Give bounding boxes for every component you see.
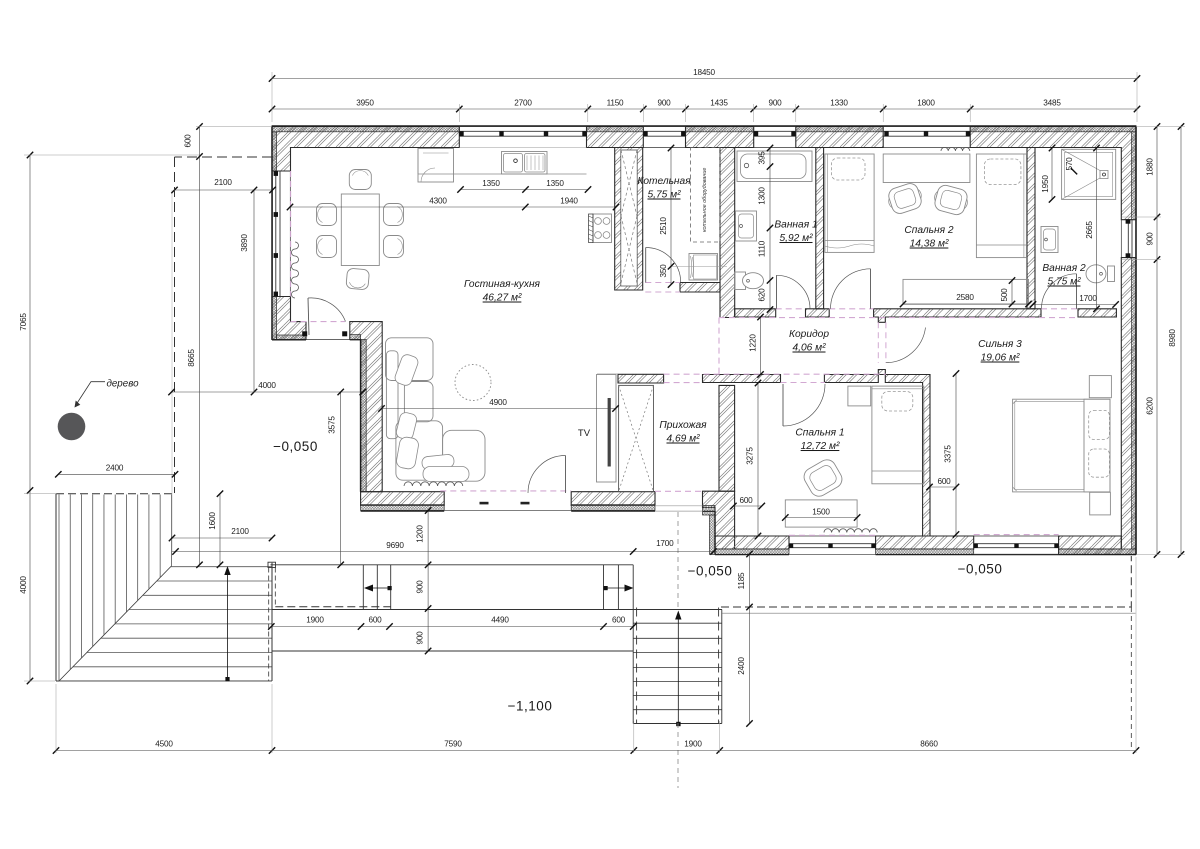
svg-text:Сильня 3: Сильня 3	[978, 339, 1022, 350]
svg-text:500: 500	[1000, 288, 1009, 302]
svg-text:Гостиная-кухня: Гостиная-кухня	[464, 279, 541, 290]
svg-text:−0,050: −0,050	[958, 562, 1003, 577]
svg-text:1500: 1500	[812, 508, 830, 517]
svg-text:18450: 18450	[693, 68, 715, 77]
svg-text:600: 600	[184, 134, 193, 148]
svg-text:1800: 1800	[917, 99, 935, 108]
svg-text:3375: 3375	[944, 445, 953, 463]
svg-text:900: 900	[657, 99, 671, 108]
svg-text:8665: 8665	[187, 349, 196, 367]
svg-text:Котельная: Котельная	[637, 176, 691, 187]
svg-text:2100: 2100	[231, 527, 249, 536]
svg-text:дерево: дерево	[106, 379, 139, 390]
svg-text:8660: 8660	[920, 740, 938, 749]
svg-text:Ванная 2: Ванная 2	[1042, 263, 1086, 274]
svg-text:570: 570	[1065, 157, 1074, 171]
svg-text:4490: 4490	[491, 616, 509, 625]
svg-text:2100: 2100	[214, 178, 232, 187]
svg-text:2665: 2665	[1085, 221, 1094, 239]
svg-text:1600: 1600	[208, 512, 217, 530]
svg-text:1940: 1940	[560, 197, 578, 206]
svg-text:1350: 1350	[482, 179, 500, 188]
svg-text:1185: 1185	[737, 572, 746, 589]
svg-text:5,92 м²: 5,92 м²	[779, 233, 813, 244]
svg-text:Коридор: Коридор	[789, 329, 829, 340]
svg-text:8980: 8980	[1168, 329, 1177, 347]
svg-text:2510: 2510	[659, 217, 668, 235]
svg-text:900: 900	[416, 631, 425, 645]
svg-text:395: 395	[758, 151, 767, 165]
svg-text:котельное оборудование: котельное оборудование	[702, 168, 708, 232]
svg-text:620: 620	[758, 288, 767, 302]
svg-text:14,38 м²: 14,38 м²	[910, 239, 949, 250]
svg-text:4500: 4500	[155, 740, 173, 749]
svg-text:350: 350	[659, 264, 668, 278]
svg-text:9690: 9690	[386, 541, 404, 550]
svg-text:4300: 4300	[429, 197, 447, 206]
svg-text:900: 900	[416, 580, 425, 594]
svg-text:5,75 м²: 5,75 м²	[1047, 277, 1081, 288]
svg-text:1350: 1350	[546, 179, 564, 188]
svg-text:Прихожая: Прихожая	[659, 420, 707, 431]
svg-text:900: 900	[1146, 232, 1155, 246]
svg-text:4000: 4000	[19, 576, 28, 594]
svg-text:−0,050: −0,050	[273, 439, 318, 454]
svg-text:1435: 1435	[710, 99, 728, 108]
svg-text:1950: 1950	[1041, 175, 1050, 193]
svg-text:TV: TV	[578, 428, 591, 439]
svg-text:2400: 2400	[737, 657, 746, 675]
svg-text:1220: 1220	[749, 334, 758, 352]
svg-text:19,06 м²: 19,06 м²	[981, 353, 1020, 364]
svg-text:Спальня 2: Спальня 2	[904, 225, 953, 236]
svg-text:7590: 7590	[444, 740, 462, 749]
svg-text:600: 600	[368, 616, 382, 625]
svg-text:Ванная 1: Ванная 1	[774, 220, 817, 231]
svg-text:1330: 1330	[830, 99, 848, 108]
svg-text:7065: 7065	[19, 313, 28, 331]
svg-text:1700: 1700	[656, 539, 674, 548]
svg-text:2700: 2700	[514, 99, 532, 108]
svg-text:−0,050: −0,050	[688, 564, 733, 579]
svg-text:3890: 3890	[240, 234, 249, 252]
svg-text:1150: 1150	[607, 99, 624, 108]
svg-text:12,72 м²: 12,72 м²	[801, 441, 840, 452]
svg-text:1900: 1900	[684, 740, 702, 749]
svg-text:−1,100: −1,100	[508, 699, 553, 714]
svg-text:600: 600	[612, 616, 626, 625]
svg-text:3275: 3275	[746, 447, 755, 465]
svg-text:3950: 3950	[356, 99, 374, 108]
svg-text:1880: 1880	[1146, 158, 1155, 176]
svg-text:46,27 м²: 46,27 м²	[483, 293, 522, 304]
svg-text:600: 600	[937, 477, 951, 486]
svg-text:Спальня 1: Спальня 1	[795, 428, 844, 439]
svg-text:3575: 3575	[328, 416, 337, 434]
svg-text:1900: 1900	[306, 616, 324, 625]
svg-text:1300: 1300	[758, 187, 767, 205]
svg-text:4,06 м²: 4,06 м²	[792, 343, 826, 354]
svg-text:4,69 м²: 4,69 м²	[666, 434, 700, 445]
svg-text:5,75 м²: 5,75 м²	[647, 190, 681, 201]
svg-text:2580: 2580	[956, 293, 974, 302]
svg-text:4900: 4900	[489, 398, 507, 407]
svg-text:900: 900	[768, 99, 782, 108]
svg-text:1110: 1110	[758, 240, 767, 257]
svg-text:6200: 6200	[1146, 397, 1155, 415]
svg-text:1200: 1200	[416, 525, 425, 543]
svg-text:1700: 1700	[1079, 294, 1097, 303]
svg-text:4000: 4000	[258, 381, 276, 390]
svg-text:2400: 2400	[106, 464, 124, 473]
svg-text:3485: 3485	[1043, 99, 1061, 108]
svg-text:600: 600	[739, 496, 753, 505]
